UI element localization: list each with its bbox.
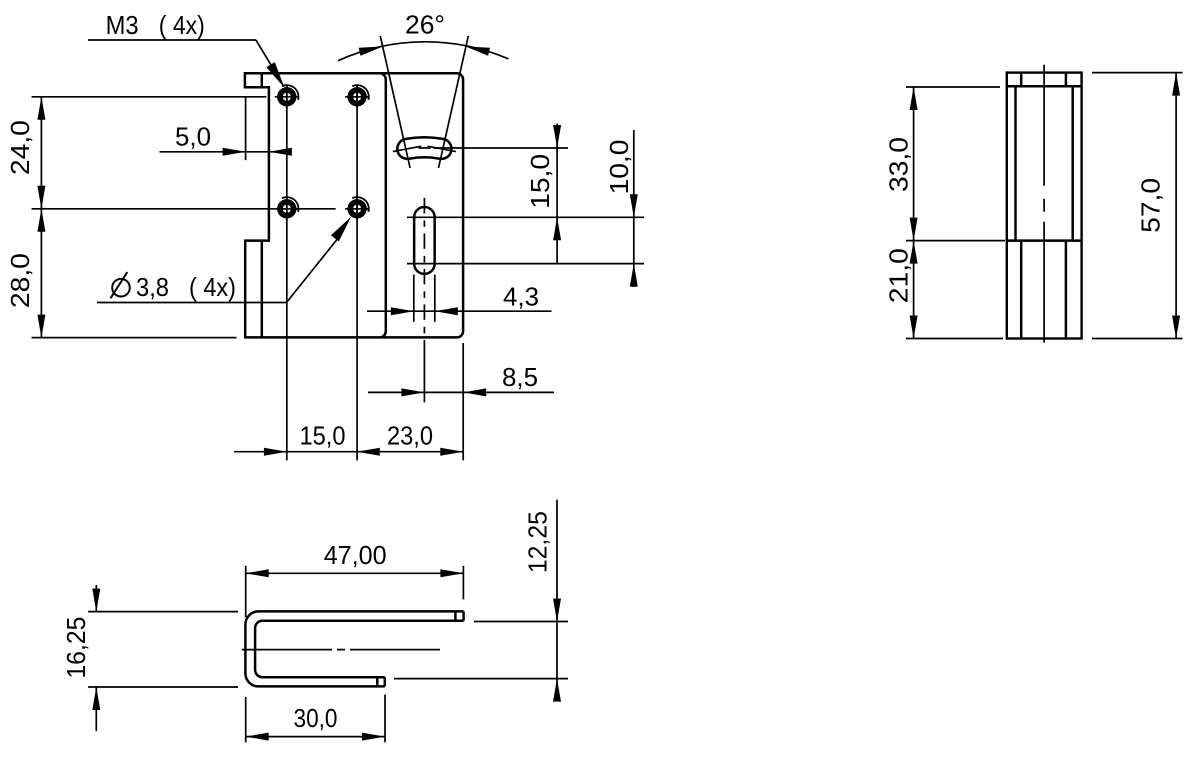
svg-text:8,5: 8,5 — [502, 362, 538, 392]
svg-text:12,25: 12,25 — [522, 511, 552, 573]
bottom view centerline — [242, 649, 443, 651]
hole2 cross extension — [346, 96, 368, 98]
hole center cross — [275, 208, 299, 210]
bottom view inner profile — [255, 621, 464, 678]
svg-text:5,0: 5,0 — [175, 121, 211, 151]
centerline vertical through right holes — [356, 85, 358, 461]
vertical slot centerline — [423, 198, 425, 350]
dimension 30,0 — [245, 697, 247, 742]
dimension 15,0 / 23,0 bottom — [234, 451, 463, 453]
extension line middle hole row — [32, 208, 336, 210]
26deg extension lines — [380, 36, 410, 168]
side view mid wall lines — [1014, 86, 1017, 240]
front: fold/bend line of right flange — [380, 73, 386, 337]
hole M3 at 357.1,208.8 — [350, 202, 364, 216]
slot end tangent ticks — [393, 146, 421, 151]
dimension 10,0 — [633, 130, 635, 287]
hole M3 at 357.1,96.8 — [350, 90, 364, 104]
top arm tip — [462, 611, 465, 620]
svg-text:4,3: 4,3 — [503, 282, 539, 312]
dimension 33,0 / 21,0 — [913, 87, 915, 339]
centerline vertical through left holes — [286, 85, 288, 461]
side view outline — [1007, 73, 1082, 339]
extension lines right of slots — [407, 216, 644, 218]
label dia 3,8 (4x) with leader — [112, 279, 130, 297]
front: top-left tab divider — [261, 73, 264, 87]
dimension 5,0 — [245, 97, 247, 160]
front: lower-left wall inner edge — [261, 241, 264, 338]
side view top band dividers — [1020, 73, 1023, 87]
svg-text:3,8: 3,8 — [136, 272, 169, 302]
dimension 4,3 — [413, 275, 415, 322]
front view outline — [245, 73, 463, 337]
hole M3 at 286.8,208.8 — [280, 202, 294, 216]
svg-text:16,25: 16,25 — [61, 617, 91, 679]
svg-text:26°: 26° — [405, 10, 445, 40]
slot horizontal centerline — [419, 147, 431, 149]
svg-text:15,0: 15,0 — [300, 421, 346, 451]
hole center cross — [345, 96, 369, 98]
dimension 24,0 / 28,0 line — [40, 97, 42, 338]
dimension 12,25 — [474, 621, 568, 623]
dimension 57,0 — [1092, 72, 1183, 74]
svg-text:28,0: 28,0 — [5, 253, 35, 308]
svg-text:( 4x): ( 4x) — [159, 10, 205, 40]
side view centerline — [1043, 65, 1045, 343]
side ext lines 33/21 — [906, 86, 1000, 88]
26deg dimension arc — [338, 42, 509, 61]
extension line top hole row — [32, 96, 267, 98]
side view inner top line — [1007, 85, 1082, 88]
svg-text:33,0: 33,0 — [884, 137, 914, 192]
svg-text:15,0: 15,0 — [525, 154, 555, 209]
svg-text:10,0: 10,0 — [604, 140, 634, 195]
bottom arm tip — [384, 677, 387, 686]
dimension 47,00 — [245, 566, 247, 617]
side view step line — [1007, 239, 1082, 242]
vertical slot — [414, 207, 435, 274]
svg-text:57,0: 57,0 — [1136, 178, 1166, 233]
hole center cross — [345, 208, 369, 210]
svg-text:30,0: 30,0 — [294, 703, 338, 733]
dimension 16,25 — [88, 611, 238, 613]
hole center cross — [275, 96, 299, 98]
svg-text:21,0: 21,0 — [884, 248, 914, 303]
side view lower wall lines — [1020, 241, 1023, 339]
dimension 8,5 — [462, 343, 464, 460]
svg-text:M3: M3 — [106, 10, 139, 40]
curved arc slot — [397, 137, 451, 159]
svg-text:( 4x): ( 4x) — [189, 272, 236, 302]
svg-text:24,0: 24,0 — [5, 120, 35, 175]
bottom view outer profile — [245, 611, 463, 686]
dimension 15,0 (right) — [556, 124, 558, 264]
svg-text:23,0: 23,0 — [387, 421, 433, 451]
svg-text:47,00: 47,00 — [324, 540, 387, 570]
hole M3 at 286.8,96.8 — [280, 90, 294, 104]
extension line bottom edge — [32, 337, 237, 339]
